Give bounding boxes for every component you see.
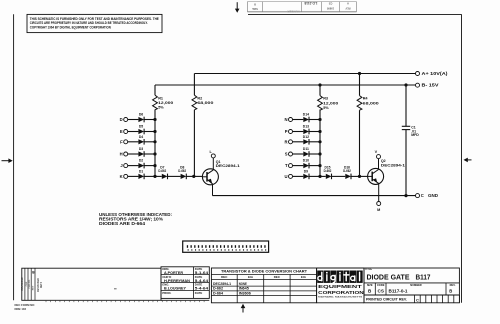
svg-text:D14: D14 (303, 113, 309, 117)
svg-text:D-662: D-662 (158, 169, 166, 173)
svg-text:MFD: MFD (411, 133, 419, 137)
svg-text:P: P (285, 129, 288, 134)
svg-text:EIA: EIA (248, 275, 254, 279)
svg-text:A: A (347, 2, 349, 6)
svg-text:SIZE: SIZE (252, 7, 258, 11)
svg-text:DEC2894-1: DEC2894-1 (216, 164, 240, 168)
svg-text:D-662: D-662 (343, 169, 351, 173)
svg-text:CORPORATION: CORPORATION (318, 290, 364, 295)
svg-text:D-662: D-662 (324, 169, 332, 173)
svg-text:R: R (284, 139, 287, 144)
svg-text:DEC: DEC (274, 275, 281, 279)
svg-text:D5: D5 (139, 125, 143, 129)
svg-text:U: U (284, 174, 287, 179)
svg-text:B- 15V: B- 15V (422, 83, 439, 88)
svg-text:12,000: 12,000 (323, 101, 338, 105)
svg-text:DRB 102: DRB 102 (15, 307, 27, 311)
svg-text:D-662: D-662 (178, 169, 186, 173)
svg-text:E: E (120, 129, 123, 134)
svg-text:F: F (120, 139, 123, 144)
svg-text:Q2: Q2 (381, 159, 386, 163)
svg-text:EQUIPMENT: EQUIPMENT (318, 284, 362, 289)
svg-text:19800: 19800 (326, 7, 334, 11)
svg-text:D-662: D-662 (213, 287, 223, 291)
svg-text:D3: D3 (139, 147, 143, 151)
svg-text:IN645: IN645 (239, 287, 249, 291)
svg-text:THIS SCHEMATIC IS FURNISHED ON: THIS SCHEMATIC IS FURNISHED ONLY FOR TES… (30, 17, 160, 21)
svg-text:EIA: EIA (301, 275, 307, 279)
svg-text:REV.: REV. (450, 283, 456, 287)
svg-text:D-664: D-664 (213, 291, 223, 295)
svg-text:R3: R3 (323, 97, 328, 101)
svg-text:D9: D9 (304, 169, 308, 173)
svg-text:B117-0-1: B117-0-1 (389, 289, 408, 294)
svg-text:5%: 5% (158, 106, 164, 110)
svg-text:MAYNARD, MASSACHUSETTS: MAYNARD, MASSACHUSETTS (318, 296, 363, 299)
svg-text:K: K (120, 174, 123, 179)
svg-text:12,000: 12,000 (158, 101, 173, 105)
svg-text:DIODES ARE D-664: DIODES ARE D-664 (99, 221, 145, 226)
svg-text:D10: D10 (303, 159, 309, 163)
svg-text:A+ 10V(A): A+ 10V(A) (422, 71, 449, 76)
svg-text:68,000: 68,000 (197, 101, 213, 105)
svg-text:CIRCUITS ARE PROPRIETARY IN NA: CIRCUITS ARE PROPRIETARY IN NATURE AND S… (30, 21, 148, 25)
svg-text:C: C (416, 298, 419, 303)
svg-text:DATE: DATE (195, 291, 203, 295)
svg-text:CODE: CODE (377, 283, 385, 287)
svg-text:CHG NO.: CHG NO. (29, 279, 31, 289)
svg-text:CS: CS (378, 289, 384, 294)
svg-text:B117: B117 (416, 275, 431, 282)
svg-text:DEC2894-1: DEC2894-1 (381, 163, 405, 167)
svg-text:NONE: NONE (239, 282, 247, 286)
svg-text:S: S (285, 152, 288, 157)
svg-text:CS: CS (328, 2, 332, 6)
svg-text:5%: 5% (323, 106, 329, 110)
svg-text:DEC2894-1: DEC2894-1 (213, 282, 231, 286)
svg-text:TITLE: TITLE (365, 267, 372, 271)
svg-text:D6: D6 (139, 113, 143, 117)
svg-text:DIODE GATE: DIODE GATE (367, 275, 410, 282)
svg-text:Q1: Q1 (216, 160, 221, 164)
svg-text:REV: REV (345, 7, 350, 10)
svg-text:D: D (120, 117, 123, 122)
svg-text:D11: D11 (303, 147, 309, 151)
svg-text:IN3606: IN3606 (239, 291, 251, 295)
svg-text:C: C (421, 193, 424, 198)
svg-text:D13: D13 (303, 125, 309, 129)
svg-text:NETZ: NETZ (40, 281, 43, 288)
svg-text:N: N (284, 117, 287, 122)
svg-text:COPYRIGHT 1964 BY DIGITAL EQUI: COPYRIGHT 1964 BY DIGITAL EQUIPMENT CORP… (30, 26, 111, 30)
svg-text:D4: D4 (139, 135, 143, 139)
svg-text:68,000: 68,000 (363, 101, 379, 105)
svg-text:NUMBER: NUMBER (410, 283, 422, 287)
svg-text:GND: GND (428, 193, 438, 198)
svg-text:PROD.: PROD. (162, 291, 171, 295)
svg-text:R2: R2 (197, 96, 202, 100)
svg-text:T: T (285, 163, 288, 168)
svg-text:SIZE: SIZE (367, 283, 373, 287)
svg-text:D2: D2 (139, 159, 143, 163)
svg-text:B: B (449, 288, 452, 293)
svg-text:CHK: CHK (26, 281, 28, 286)
svg-text:REVISIONS: REVISIONS (21, 277, 24, 290)
svg-text:NUMBER: NUMBER (287, 10, 299, 14)
svg-text:DEC: DEC (221, 275, 228, 279)
svg-text:H: H (120, 152, 123, 157)
svg-text:REV: REV (32, 285, 34, 290)
svg-text:TRANSISTOR & DIODE CONVERSION: TRANSISTOR & DIODE CONVERSION CHART (221, 269, 308, 274)
svg-text:D12: D12 (303, 135, 309, 139)
svg-text:PRINTED CIRCUIT REV.: PRINTED CIRCUIT REV. (366, 297, 407, 301)
svg-text:M: M (377, 208, 380, 212)
svg-text:D1: D1 (139, 169, 143, 173)
svg-text:1-D-2118: 1-D-2118 (304, 1, 318, 6)
svg-text:R1: R1 (158, 96, 163, 100)
